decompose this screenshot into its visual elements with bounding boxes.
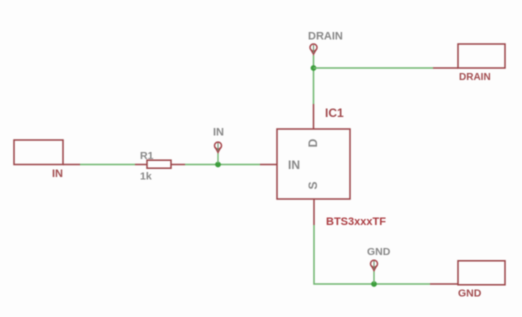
pin flag IN bbox=[215, 142, 222, 163]
node DRAIN label bbox=[308, 31, 343, 43]
wire IN net left bbox=[80, 164, 135, 166]
svg-text:IN: IN bbox=[288, 158, 300, 172]
wire IN net right bbox=[185, 164, 260, 166]
IC1 pin IN stub bbox=[260, 164, 277, 166]
wire GND net horizontal bbox=[374, 283, 430, 285]
IC1 name label bbox=[325, 106, 344, 120]
svg-text:GND: GND bbox=[458, 288, 482, 300]
node IN label bbox=[213, 127, 224, 139]
port GND label bbox=[458, 288, 482, 300]
port DRAIN bbox=[458, 44, 505, 68]
junction IN bbox=[215, 162, 221, 168]
port DRAIN stub bbox=[433, 67, 458, 69]
wire IN port stub bbox=[63, 164, 80, 166]
resistor R1 left pin bbox=[135, 164, 147, 166]
port IN bbox=[14, 140, 63, 165]
port DRAIN label bbox=[459, 72, 491, 83]
port GND stub bbox=[430, 283, 458, 285]
junction GND bbox=[371, 281, 377, 287]
svg-text:DRAIN: DRAIN bbox=[308, 31, 343, 43]
svg-text:D: D bbox=[306, 138, 320, 147]
svg-text:DRAIN: DRAIN bbox=[459, 72, 491, 83]
resistor R1 bbox=[147, 160, 171, 168]
port GND bbox=[458, 261, 505, 285]
resistor R1 value label 1k bbox=[140, 171, 152, 183]
junction DRAIN bbox=[311, 65, 317, 71]
svg-text:IC1: IC1 bbox=[325, 106, 344, 120]
svg-text:BTS3xxxTF: BTS3xxxTF bbox=[326, 216, 386, 228]
svg-text:S: S bbox=[306, 181, 320, 189]
svg-text:R1: R1 bbox=[140, 150, 154, 162]
port IN label bbox=[52, 168, 63, 180]
IC1 pin name IN bbox=[288, 158, 300, 172]
wire DRAIN net horizontal bbox=[314, 67, 434, 69]
svg-text:IN: IN bbox=[213, 127, 224, 139]
svg-text:GND: GND bbox=[367, 246, 391, 258]
node GND label bbox=[367, 246, 391, 258]
wire DRAIN net vertical bbox=[313, 55, 315, 104]
wire GND net vertical bbox=[314, 225, 374, 284]
pin flag DRAIN bbox=[310, 44, 317, 54]
resistor R1 right pin bbox=[171, 164, 185, 166]
resistor R1 name label bbox=[140, 150, 154, 162]
IC1 pin S stub bbox=[313, 199, 315, 225]
svg-text:IN: IN bbox=[52, 168, 63, 180]
IC1 value label BTS3xxxTF bbox=[326, 216, 386, 228]
IC1 pin name S bbox=[306, 181, 320, 189]
op-amp IC1 body bbox=[277, 129, 350, 199]
IC1 pin D stub bbox=[313, 104, 315, 129]
pin flag GND bbox=[371, 260, 378, 283]
IC1 pin name D bbox=[306, 138, 320, 147]
svg-text:1k: 1k bbox=[140, 171, 152, 183]
